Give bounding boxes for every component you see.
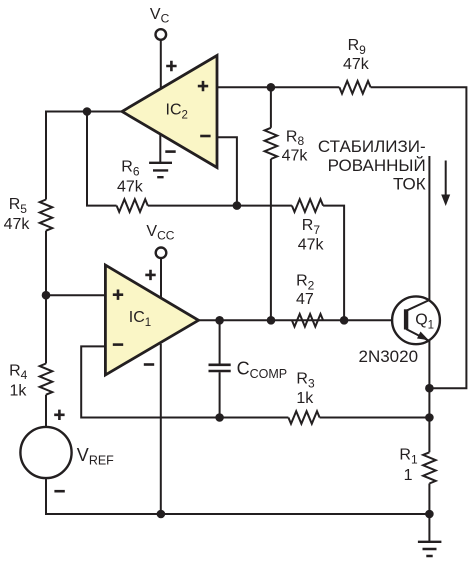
wire node to IC1 noninverting input	[46, 294, 104, 296]
svg-text:РОВАННЫЙ: РОВАННЫЙ	[328, 156, 426, 175]
VREF plus mark	[54, 410, 64, 420]
svg-text:47k: 47k	[117, 179, 144, 196]
wire VC to IC2 supply	[160, 40, 162, 90]
svg-text:47k: 47k	[343, 56, 370, 73]
svg-text:R2: R2	[296, 273, 315, 293]
svg-text:R9: R9	[348, 37, 367, 57]
capacitor CCOMP	[209, 320, 231, 417]
wire R7 down to base node	[323, 206, 344, 321]
node dot R9/R8	[267, 83, 276, 92]
wire VREF to bottom rail	[46, 478, 429, 514]
wire IC1 inverting feedback	[81, 346, 288, 417]
svg-text:R6: R6	[121, 159, 140, 179]
wire IC1 output	[199, 319, 392, 321]
wire bottom rail to ground	[428, 514, 430, 542]
ground (R1)	[418, 542, 442, 556]
svg-text:1: 1	[404, 467, 413, 484]
node dot IC1 output / CCOMP	[215, 316, 224, 325]
svg-text:СТАБИЛИЗИ-: СТАБИЛИЗИ-	[318, 137, 426, 156]
current direction arrow	[441, 161, 450, 207]
resistor R6	[117, 199, 148, 212]
resistor R9	[339, 81, 370, 94]
node dot output IC2	[83, 107, 92, 116]
svg-text:47k: 47k	[4, 216, 31, 233]
svg-text:VCC: VCC	[146, 223, 174, 243]
svg-text:VREF: VREF	[77, 445, 114, 468]
node dot CCOMP bottom	[215, 413, 224, 422]
svg-text:R1: R1	[399, 447, 418, 467]
stabilized current label	[318, 137, 426, 193]
IC1 inverting input - mark	[113, 343, 123, 346]
transistor Q1	[392, 296, 440, 344]
VCC terminal circle	[156, 248, 167, 259]
IC2 negative supply - mark	[165, 150, 175, 153]
resistor R2	[292, 314, 323, 327]
IC1 negative supply - mark	[144, 363, 154, 366]
wire R1 to bottom rail	[428, 484, 430, 515]
svg-text:VC: VC	[150, 6, 170, 26]
resistor R8	[265, 128, 278, 159]
svg-text:1k: 1k	[296, 390, 314, 407]
wire R9 to right rail down to emitter node	[371, 87, 467, 388]
node dot R5/R4/IC1	[42, 291, 51, 300]
node dot R6/R7	[233, 201, 242, 210]
wire IC1 negative supply to bottom rail	[160, 344, 162, 514]
wire Q1 collector up	[428, 156, 430, 300]
voltage source VREF	[20, 427, 71, 478]
svg-text:R8: R8	[286, 128, 305, 148]
node dot emitter / right rail	[425, 384, 434, 393]
wire node down to R4	[45, 295, 47, 363]
resistor R4	[40, 364, 53, 395]
wire R4 to VREF	[45, 395, 47, 427]
IC1 noninverting input + mark	[113, 290, 123, 300]
svg-text:47k: 47k	[282, 147, 309, 164]
svg-text:2N3020: 2N3020	[359, 347, 419, 366]
wire R3 to emitter node	[320, 417, 430, 419]
wire IC2 + input to R9	[218, 86, 339, 88]
wire Q1 emitter down through nodes to R1	[428, 341, 430, 452]
resistor R5	[40, 200, 53, 231]
wire IC2 supply minus stem	[159, 134, 161, 163]
svg-text:47k: 47k	[298, 236, 325, 253]
node dot bottom rail R1	[425, 510, 434, 519]
wire node down to R6	[87, 112, 117, 206]
wire IC2 output to left rail	[46, 112, 122, 200]
wire R7 from node	[237, 205, 292, 207]
svg-text:R7: R7	[302, 217, 321, 237]
op-amp IC2	[122, 56, 217, 168]
wire R8 bottom to IC1 output	[270, 159, 272, 320]
svg-text:Q1: Q1	[415, 312, 434, 332]
wire R5 to node	[45, 231, 47, 296]
node dot R2 / R7	[340, 316, 349, 325]
op-amp IC1	[105, 265, 198, 375]
node dot IC1 output / R8	[267, 316, 276, 325]
svg-text:R5: R5	[9, 196, 28, 216]
wire R8 top	[270, 87, 272, 128]
svg-text:47: 47	[296, 291, 314, 308]
ground (IC2 supply)	[149, 163, 172, 177]
wire R6 to node	[148, 205, 237, 207]
svg-text:R3: R3	[296, 371, 315, 391]
resistor R7	[292, 199, 323, 212]
node dot bottom rail IC1 supply	[157, 510, 166, 519]
IC2 noninverting input + mark	[198, 81, 208, 91]
resistor R3	[288, 411, 319, 424]
wire node to IC2 inverting input	[218, 137, 237, 205]
IC2 positive supply + mark	[166, 61, 176, 71]
VREF minus mark	[54, 490, 64, 493]
node dot R3 / emitter line	[425, 413, 434, 422]
VC terminal circle	[156, 29, 167, 40]
wire VCC to IC1 supply	[160, 258, 162, 297]
IC2 inverting input - mark	[200, 135, 210, 138]
svg-text:ТОК: ТОК	[393, 174, 426, 193]
svg-text:CCOMP: CCOMP	[237, 358, 288, 381]
svg-text:1k: 1k	[10, 382, 28, 399]
svg-text:R4: R4	[9, 362, 28, 382]
resistor R1	[423, 452, 436, 483]
IC1 positive supply + mark	[145, 270, 155, 280]
